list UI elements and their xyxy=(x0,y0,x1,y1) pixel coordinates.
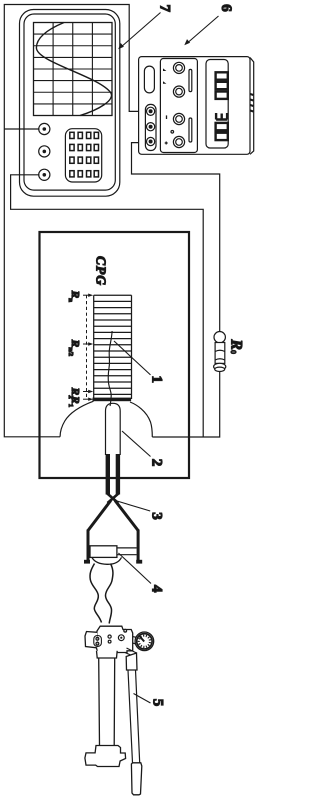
svg-text:7: 7 xyxy=(156,5,172,13)
arrow Rn/2 xyxy=(83,343,91,345)
holder 3 upper rail xyxy=(137,530,140,564)
arrow R1 xyxy=(83,398,91,400)
PSU minus mark xyxy=(166,115,168,119)
wire knob3 to bell upper rim xyxy=(11,175,204,437)
pump head big circle xyxy=(118,635,124,641)
label 2 pointer xyxy=(122,431,151,457)
pump head lower bracket xyxy=(85,632,97,648)
pump bracket circles xyxy=(96,637,99,640)
PSU display digits 000 xyxy=(216,72,228,99)
PSU knob C xyxy=(173,113,184,124)
piston 4 body xyxy=(90,546,117,558)
capillary 2 dome and thin walls xyxy=(106,403,121,455)
PSU control panel xyxy=(160,59,197,153)
holder rail end cap lower xyxy=(84,560,90,564)
svg-text:R: R xyxy=(69,339,81,347)
PSU terminal 1 xyxy=(147,107,155,115)
svg-text:0: 0 xyxy=(229,350,237,354)
oscilloscope inner body xyxy=(24,14,115,190)
label 5 pointer xyxy=(134,694,151,704)
knob K1 xyxy=(39,123,50,134)
wire R0 to bell upper rim xyxy=(152,371,219,437)
PSU terminal 2 xyxy=(147,123,155,131)
capillary 2 thick wall upper xyxy=(116,454,120,495)
svg-text:5: 5 xyxy=(150,699,166,707)
holder 3 cone lower xyxy=(88,501,111,531)
svg-text:2: 2 xyxy=(149,459,165,467)
svg-text:CPG: CPG xyxy=(94,256,109,286)
power supply U6 top 3d face xyxy=(250,58,254,155)
coil 1 end electrode bar xyxy=(93,398,132,402)
resistor R0 xyxy=(214,332,226,372)
coil 1 rungs xyxy=(94,295,132,394)
piston 4 boot xyxy=(92,557,122,564)
svg-text:n/2: n/2 xyxy=(67,347,74,356)
holder rail end cap upper xyxy=(136,560,142,564)
svg-text:4: 4 xyxy=(149,585,165,593)
oscilloscope screen xyxy=(34,23,113,116)
arrow Rn xyxy=(83,294,91,296)
wire knob1 branch xyxy=(4,128,39,130)
pump bracket slot xyxy=(94,636,102,647)
pump 5 head block xyxy=(97,626,133,652)
holder 3 cone upper xyxy=(115,501,138,531)
PSU small led xyxy=(171,131,174,134)
PSU knob A xyxy=(173,62,184,73)
knob K2 xyxy=(39,146,50,157)
pump handle fork xyxy=(125,648,137,657)
gauge stem xyxy=(133,637,137,644)
arrow R2 xyxy=(83,391,91,393)
PSU vent oval xyxy=(144,66,154,93)
PSU indicator triangles xyxy=(163,68,166,83)
CPG chamber box xyxy=(40,232,190,478)
pump head small circles xyxy=(108,635,111,638)
holder 3 lower rail xyxy=(87,530,90,564)
pump head filled circle xyxy=(123,629,127,633)
capillary 2 thick wall lower xyxy=(106,454,110,495)
PSU slider slot 2 xyxy=(189,118,192,142)
knob K3 xyxy=(39,169,50,180)
pump handle sleeve xyxy=(126,653,137,670)
PSU display panel xyxy=(206,60,228,149)
PSU terminal 3 xyxy=(147,137,155,145)
PSU knob D xyxy=(173,136,184,147)
sample thread in capillary xyxy=(108,331,112,406)
sine trace xyxy=(36,23,111,116)
capillary 2 bell upper curve xyxy=(130,402,152,437)
svg-text:3: 3 xyxy=(149,512,165,520)
piston 4 stem xyxy=(117,548,137,555)
PSU display digits 300 xyxy=(216,113,228,140)
svg-text:1: 1 xyxy=(149,376,165,384)
pump barrel collar xyxy=(97,651,118,658)
label 1 pointer xyxy=(114,341,151,375)
svg-text:R: R xyxy=(228,339,245,350)
coil 1 rails xyxy=(94,295,132,399)
pressure gauge xyxy=(135,632,154,651)
label 4 pointer xyxy=(118,553,151,584)
wire PSU terminal 3 to R0 xyxy=(132,143,220,332)
capillary 2 bell lower curve xyxy=(60,401,93,437)
pump foot xyxy=(85,746,126,767)
power supply 3d face hatching xyxy=(250,94,253,112)
label 7 arrow xyxy=(122,13,160,47)
svg-text:1: 1 xyxy=(67,404,74,407)
label 3 pointer xyxy=(112,500,150,512)
hose upper line xyxy=(106,564,113,624)
label 6 arrow xyxy=(189,16,219,42)
PSU terminal block xyxy=(145,104,156,150)
hose lower line xyxy=(90,564,101,623)
pump handle grip xyxy=(131,763,141,795)
oscilloscope U7 outer body xyxy=(20,10,120,197)
capillary seal bowtie xyxy=(107,493,119,503)
PSU knob B xyxy=(173,86,184,97)
svg-text:n: n xyxy=(67,298,74,302)
svg-text:R: R xyxy=(69,290,81,298)
svg-text:R: R xyxy=(69,395,81,403)
keypad xyxy=(65,129,101,182)
svg-text:6: 6 xyxy=(218,4,234,12)
pump barrel xyxy=(99,658,115,746)
svg-text:R: R xyxy=(69,387,81,395)
dashed dimension line xyxy=(86,295,88,399)
pump handle rod xyxy=(128,670,140,763)
wire from PSU terminal 1 via frame to capillary bell lower rim xyxy=(4,5,149,437)
power supply U6 body xyxy=(139,57,250,155)
PSU plus mark xyxy=(165,142,168,145)
PSU slider slot 1 xyxy=(189,69,192,91)
